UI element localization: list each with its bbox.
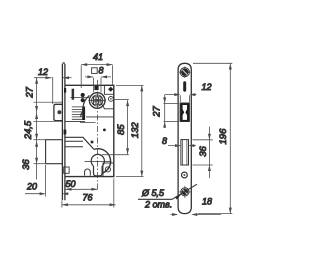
deadbolt window	[181, 140, 189, 165]
cylinder outer ring arc	[94, 149, 111, 174]
horizontal centerline through cylinder	[85, 161, 112, 163]
cam lower line	[86, 116, 114, 118]
dim 12 latch projection: line	[34, 77, 52, 79]
leader line for hole note	[138, 184, 197, 199]
top-right screw diamond	[108, 87, 113, 92]
middle compartment sloped top	[65, 137, 94, 149]
semicircle boss left of cylinder	[85, 169, 91, 176]
lock body outline	[65, 85, 114, 176]
svg-text:2 отв.: 2 отв.	[144, 200, 172, 210]
dim 85: line, arrows, ext lines	[102, 100, 129, 155]
svg-text:50: 50	[66, 179, 76, 189]
svg-text:196: 196	[218, 128, 229, 145]
small square on top edge at centerline	[94, 86, 98, 90]
deadbolt head box	[46, 140, 63, 164]
top slot	[183, 81, 186, 92]
middle screw hole	[182, 172, 188, 178]
latch face (dark with bevel)	[181, 103, 190, 121]
dim 41: line and arrows	[81, 63, 112, 88]
latch window	[180, 103, 189, 122]
dim 196: full plate height	[193, 63, 232, 213]
dim 76: line, arrows, ext	[62, 179, 116, 208]
dim 18: plate width	[171, 213, 222, 216]
svg-text:12: 12	[38, 67, 48, 77]
svg-text:8: 8	[99, 66, 104, 76]
svg-text:41: 41	[93, 52, 103, 62]
svg-text:36: 36	[198, 146, 209, 157]
dim 27 (right): vertical with outside arrows	[163, 95, 179, 128]
svg-text:27: 27	[24, 86, 35, 98]
svg-text:76: 76	[83, 193, 93, 203]
svg-text:27: 27	[152, 106, 163, 118]
latch bolt head	[54, 104, 63, 120]
dim 20: line, arrows, ext	[25, 165, 68, 197]
latch pin	[57, 110, 61, 114]
svg-text:132: 132	[130, 122, 141, 139]
svg-text:24,5: 24,5	[23, 120, 34, 140]
deadbolt tail lines	[65, 141, 83, 147]
small dark square near cylinder	[91, 141, 94, 144]
latch unit bottom line	[65, 120, 85, 122]
left view: faceplate side (two vertical lines)	[62, 63, 65, 200]
svg-text:Ø 5,5: Ø 5,5	[141, 188, 165, 198]
dim 12 ext line at latch tip	[52, 77, 54, 104]
deadlock pin upper	[81, 93, 85, 97]
left chain dim line 27/24,5/36	[34, 78, 48, 180]
deadlock pin lower	[81, 98, 85, 102]
follower hub outer	[89, 93, 105, 109]
dim 12 arrows	[46, 76, 70, 79]
upper circle-dot screw	[109, 97, 114, 102]
svg-text:18: 18	[202, 197, 212, 207]
svg-text:8: 8	[162, 136, 167, 146]
svg-text:85: 85	[116, 124, 127, 135]
faceplate boss bottom	[64, 167, 69, 173]
follower square hole	[94, 97, 102, 105]
small dark dot mid body	[103, 129, 106, 132]
small line below latch unit	[80, 122, 96, 124]
dim 36 (right): deadbolt window height	[193, 127, 213, 179]
top screw hole	[180, 68, 189, 77]
faceplate boss middle	[64, 130, 67, 135]
dim 8 (deadbolt window width)	[168, 144, 196, 147]
euro cylinder circle	[91, 154, 104, 167]
dim 132: line, arrows, ext lines	[116, 85, 144, 176]
latch tail serrated block	[72, 107, 85, 119]
horizontal centerline through follower	[89, 100, 107, 102]
follower hub inner	[92, 95, 103, 106]
square symbol of dim 8	[92, 68, 98, 74]
latch extension line bottom	[34, 120, 63, 122]
svg-text:20: 20	[26, 182, 37, 192]
vertical dashed centerline through hub and cylinder	[96, 80, 98, 190]
svg-text:36: 36	[21, 159, 32, 170]
latch extension line top	[34, 101, 63, 103]
follower cam wing	[81, 95, 89, 117]
dim square-8: line and arrows	[85, 75, 111, 92]
spring bar	[72, 89, 75, 100]
dim 50: line, inside arrows	[66, 188, 98, 191]
faceplate boss top	[64, 88, 66, 93]
bottom-right screw box	[103, 163, 114, 177]
bottom screw hole (hatched)	[181, 188, 189, 196]
latch tail end bar	[82, 107, 85, 120]
dim 12 (latch window width): line/arrows/exts	[165, 93, 197, 102]
cam to right edge line	[101, 104, 114, 109]
spring top line	[70, 97, 89, 99]
top-right screw box	[104, 85, 113, 94]
svg-text:12: 12	[202, 82, 212, 92]
euro cylinder slot	[94, 164, 103, 176]
plate outline (stadium)	[178, 63, 191, 213]
